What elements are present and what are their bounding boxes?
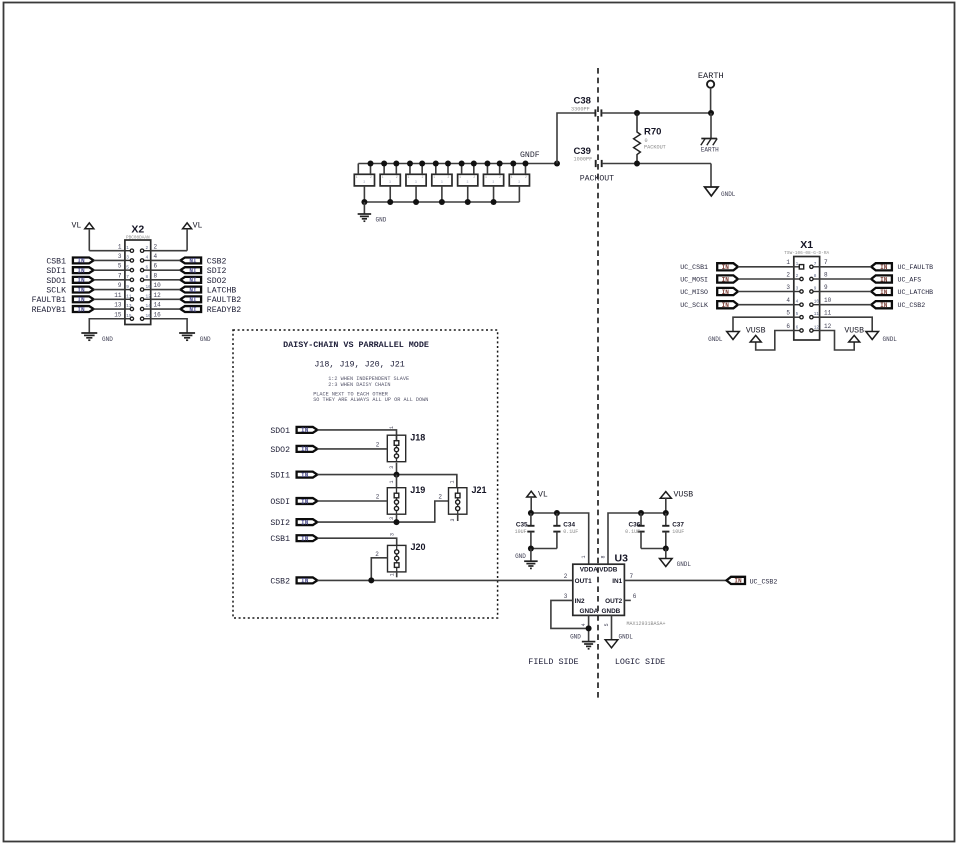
svg-text:6: 6 bbox=[786, 323, 790, 330]
wire - J18 pin 3 to SDI1 net bbox=[389, 463, 396, 475]
junction VL rail at C34 bbox=[554, 510, 560, 516]
svg-text:2: 2 bbox=[447, 175, 449, 179]
svg-text:3300PF: 3300PF bbox=[571, 107, 590, 113]
svg-text:2: 2 bbox=[370, 175, 372, 179]
svg-text:3: 3 bbox=[467, 180, 469, 184]
svg-text:SO THEY ARE ALWAYS ALL UP OR A: SO THEY ARE ALWAYS ALL UP OR ALL DOWN bbox=[313, 397, 428, 403]
port UC_CSB1 (X1 pin 1) bbox=[680, 263, 738, 271]
svg-text:IN: IN bbox=[301, 519, 309, 526]
port UC_AFS (X1 pin 8) bbox=[871, 275, 921, 283]
svg-text:GNDA: GNDA bbox=[579, 608, 598, 615]
ground GNDL (X1 left) bbox=[708, 332, 739, 343]
wire - X1 pin 7 to UC_FAULTB bbox=[820, 259, 872, 267]
capacitor C34 bbox=[531, 513, 578, 549]
svg-text:SDO1: SDO1 bbox=[270, 427, 290, 436]
terminal EARTH bbox=[698, 71, 724, 113]
svg-text:10UF: 10UF bbox=[515, 529, 527, 535]
ground GNDL (X1 right) bbox=[866, 332, 897, 343]
ground GND (U3 GNDA) bbox=[570, 634, 595, 649]
svg-text:SDI1: SDI1 bbox=[46, 267, 66, 276]
wire - cap bank bottom bus bbox=[364, 201, 519, 203]
net label PACKOUT bbox=[580, 175, 614, 184]
wire - X2 pin 14 to READYB2 bbox=[151, 302, 181, 309]
junction C36/C37 ground node bbox=[663, 546, 669, 552]
wire - SDI1 bus bbox=[317, 475, 457, 488]
svg-text:1: 1 bbox=[786, 259, 790, 266]
svg-text:7: 7 bbox=[118, 272, 122, 279]
svg-text:0.1UF: 0.1UF bbox=[563, 529, 578, 535]
svg-text:GNDL: GNDL bbox=[677, 561, 692, 568]
svg-text:IN: IN bbox=[77, 277, 85, 284]
svg-text:1: 1 bbox=[382, 175, 384, 179]
svg-text:GNDL: GNDL bbox=[708, 336, 723, 343]
svg-text:3: 3 bbox=[518, 180, 520, 184]
wire - J21 pin 3 stub (n.c.) bbox=[450, 513, 458, 521]
svg-text:4: 4 bbox=[146, 256, 149, 261]
svg-text:UC_MOSI: UC_MOSI bbox=[680, 276, 708, 283]
svg-text:15: 15 bbox=[114, 311, 122, 318]
junction CSB2/J20.2 bbox=[368, 577, 374, 583]
svg-text:FAULTB2: FAULTB2 bbox=[207, 296, 241, 305]
svg-text:7: 7 bbox=[126, 275, 129, 280]
svg-text:3: 3 bbox=[126, 256, 129, 261]
ground GND (cap bank) bbox=[358, 202, 387, 224]
svg-text:1: 1 bbox=[118, 243, 122, 250]
svg-text:SCLK: SCLK bbox=[46, 286, 66, 295]
svg-text:UC_CSB2: UC_CSB2 bbox=[750, 578, 778, 585]
svg-text:IN: IN bbox=[301, 472, 309, 479]
wire - X2 pin 4 to CSB2 bbox=[151, 253, 181, 260]
port SCLK (X2 pin 9) bbox=[46, 286, 93, 295]
port SDI2 (X2 pin 6) bbox=[180, 267, 226, 276]
wire - X2 pin 12 to FAULTB2 bbox=[151, 292, 181, 299]
wire - C39 to GNDL bbox=[602, 164, 711, 188]
note box - daisy-chain vs parallel mode (dashed) bbox=[233, 330, 498, 618]
svg-text:READYB2: READYB2 bbox=[207, 306, 241, 315]
port UC_CSB2 (X1 pin 10) bbox=[871, 301, 925, 309]
svg-text:IN1: IN1 bbox=[612, 578, 622, 585]
svg-text:MAX12931BASA+: MAX12931BASA+ bbox=[627, 621, 666, 627]
label LOGIC SIDE bbox=[615, 657, 665, 667]
wire - X1 pin 6 to VUSB bbox=[756, 323, 794, 350]
wire - X2 pin 15 to GND bbox=[89, 311, 125, 332]
wire - CSB1 to X2 pin 3 bbox=[94, 253, 125, 260]
wire - SDO1 to J18 pin 1 bbox=[317, 426, 396, 441]
svg-text:2: 2 bbox=[499, 175, 501, 179]
capacitor C38 bbox=[571, 96, 601, 117]
port OSDI bbox=[270, 498, 317, 507]
junction SDI1/J18.3/J19.1 bbox=[394, 472, 400, 478]
svg-text:10UF: 10UF bbox=[672, 529, 684, 535]
svg-text:3: 3 bbox=[441, 180, 443, 184]
svg-text:12: 12 bbox=[814, 326, 820, 331]
svg-text:2: 2 bbox=[564, 573, 568, 580]
port UC_MISO (X1 pin 3) bbox=[680, 288, 738, 296]
port CSB1 bbox=[270, 535, 317, 544]
svg-text:LATCHB: LATCHB bbox=[207, 286, 237, 295]
svg-text:IN: IN bbox=[77, 287, 85, 294]
svg-text:IN: IN bbox=[301, 578, 309, 585]
svg-text:10: 10 bbox=[146, 285, 152, 290]
svg-text:SDO2: SDO2 bbox=[270, 446, 290, 455]
wire - X1 pin 12 to VUSB bbox=[820, 323, 855, 350]
wire - VL to X2 pin 1 bbox=[89, 243, 125, 250]
port UC_SCLK (X1 pin 4) bbox=[680, 301, 738, 309]
svg-text:1: 1 bbox=[485, 175, 487, 179]
svg-text:4: 4 bbox=[796, 300, 799, 305]
svg-text:VUSB: VUSB bbox=[674, 490, 694, 499]
port FAULTB2 (X2 pin 12) bbox=[180, 296, 241, 305]
svg-text:CSB2: CSB2 bbox=[207, 257, 227, 266]
svg-text:READYB1: READYB1 bbox=[32, 306, 66, 315]
wire - SDO2 to J18 pin 2 bbox=[317, 442, 387, 449]
port CSB2 (X2 pin 4) bbox=[180, 257, 226, 266]
power VL (X2 left) bbox=[72, 222, 94, 251]
op-amp U3 (isolator MAX12931) bbox=[573, 553, 666, 627]
svg-text:5: 5 bbox=[604, 623, 610, 626]
wire - FAULTB1 to X2 pin 11 bbox=[94, 292, 125, 299]
ground GND (U3 caps) bbox=[515, 549, 538, 569]
wire - X1 pin 9 to UC_LATCHB bbox=[820, 284, 872, 292]
svg-text:VUSB: VUSB bbox=[844, 326, 864, 335]
wire - SDI2 bus to J21 pin 2 bbox=[317, 494, 448, 522]
junction VL rail at C35 bbox=[528, 510, 534, 516]
svg-text:IN: IN bbox=[880, 264, 888, 271]
svg-text:13: 13 bbox=[114, 302, 122, 309]
svg-text:LOGIC SIDE: LOGIC SIDE bbox=[615, 657, 665, 667]
svg-text:0.1UF: 0.1UF bbox=[625, 529, 640, 535]
svg-text:DAISY-CHAIN VS PARRALLEL MODE: DAISY-CHAIN VS PARRALLEL MODE bbox=[283, 340, 429, 350]
svg-text:NI: NI bbox=[189, 287, 197, 294]
svg-text:1: 1 bbox=[449, 480, 455, 483]
field/logic side separator (dashed) bbox=[597, 68, 599, 699]
svg-text:IN: IN bbox=[301, 427, 309, 434]
svg-text:11: 11 bbox=[126, 295, 132, 300]
wire - CSB2 net to U3 OUT1 bbox=[317, 579, 573, 581]
port LATCHB (X2 pin 10) bbox=[180, 286, 236, 295]
port UC_CSB2 (U3 IN1) bbox=[727, 577, 778, 586]
svg-text:UC_CSB1: UC_CSB1 bbox=[680, 264, 708, 271]
svg-text:NI: NI bbox=[189, 267, 197, 274]
svg-text:6: 6 bbox=[154, 263, 158, 270]
svg-text:GNDB: GNDB bbox=[601, 608, 620, 615]
wire - UC_MISO to X1 pin 3 bbox=[738, 284, 794, 292]
svg-text:3: 3 bbox=[786, 284, 790, 291]
port FAULTB1 (X2 pin 11) bbox=[32, 296, 94, 305]
svg-text:VUSB: VUSB bbox=[746, 326, 766, 335]
svg-text:1: 1 bbox=[389, 573, 395, 576]
svg-text:IN: IN bbox=[77, 297, 85, 304]
wire - UC_CSB1 to X1 pin 1 bbox=[738, 259, 794, 267]
svg-text:IN: IN bbox=[880, 276, 888, 283]
label FIELD SIDE bbox=[528, 657, 578, 667]
svg-text:FIELD SIDE: FIELD SIDE bbox=[528, 657, 578, 667]
resistor R70 bbox=[634, 113, 666, 164]
svg-text:UC_FAULTB: UC_FAULTB bbox=[898, 264, 934, 271]
svg-text:NI: NI bbox=[189, 306, 197, 313]
wire - SDI1 to X2 pin 5 bbox=[94, 263, 125, 270]
svg-text:1: 1 bbox=[459, 175, 461, 179]
capacitor array C45 bbox=[483, 164, 503, 203]
capacitor C35 bbox=[515, 513, 535, 549]
svg-text:3: 3 bbox=[389, 533, 395, 536]
junction SDI2/J19.3 bbox=[394, 519, 400, 525]
wire - X1 pin 8 to UC_AFS bbox=[820, 271, 872, 279]
port UC_MOSI (X1 pin 2) bbox=[680, 275, 738, 283]
wire - cap bank top bus GNDF bbox=[358, 163, 557, 165]
wire - UC_SCLK to X1 pin 4 bbox=[738, 297, 794, 305]
svg-text:1: 1 bbox=[407, 175, 409, 179]
wire - GNDB pin to GNDL bbox=[604, 615, 611, 639]
capacitor array C46 bbox=[509, 164, 529, 203]
capacitor array C42 bbox=[406, 164, 426, 203]
wire - OSDI to J19 pin 2 bbox=[317, 494, 387, 501]
svg-text:SDO2: SDO2 bbox=[207, 277, 227, 286]
svg-text:3: 3 bbox=[450, 518, 456, 521]
junction GNDA/IN2 bbox=[586, 625, 592, 631]
svg-text:EARTH: EARTH bbox=[701, 146, 719, 153]
svg-text:7: 7 bbox=[630, 573, 634, 580]
connector X1 bbox=[784, 239, 829, 340]
svg-text:5: 5 bbox=[118, 263, 122, 270]
svg-text:C36: C36 bbox=[628, 521, 640, 528]
svg-text:SDI2: SDI2 bbox=[207, 267, 227, 276]
svg-text:GNDL: GNDL bbox=[883, 336, 898, 343]
svg-text:VL: VL bbox=[538, 490, 548, 499]
svg-text:J20: J20 bbox=[411, 542, 426, 552]
svg-text:12: 12 bbox=[146, 295, 152, 300]
svg-text:CSB2: CSB2 bbox=[270, 577, 290, 586]
port SDI1 bbox=[270, 472, 317, 481]
svg-text:PACKOUT: PACKOUT bbox=[580, 175, 614, 184]
junctions - cap bank bottom bus bbox=[361, 199, 496, 205]
svg-text:OSDI: OSDI bbox=[270, 498, 290, 507]
svg-text:2: 2 bbox=[525, 175, 527, 179]
svg-text:8: 8 bbox=[146, 275, 149, 280]
wire - J21 pin 1 stub bbox=[449, 475, 456, 488]
svg-text:3: 3 bbox=[389, 180, 391, 184]
port READYB2 (X2 pin 14) bbox=[180, 306, 241, 315]
svg-text:C38: C38 bbox=[574, 96, 591, 107]
svg-text:UC_LATCHB: UC_LATCHB bbox=[898, 289, 934, 296]
svg-text:VDDA: VDDA bbox=[580, 566, 598, 573]
svg-text:IN: IN bbox=[77, 267, 85, 274]
svg-text:FAULTB1: FAULTB1 bbox=[32, 296, 66, 305]
svg-text:2: 2 bbox=[422, 175, 424, 179]
svg-text:IN: IN bbox=[77, 306, 85, 313]
svg-text:10: 10 bbox=[154, 282, 162, 289]
svg-text:12: 12 bbox=[154, 292, 162, 299]
svg-text:6: 6 bbox=[796, 326, 799, 331]
svg-text:NI: NI bbox=[189, 258, 197, 265]
wire - VUSB rail to VDDB bbox=[600, 513, 666, 564]
svg-text:9: 9 bbox=[824, 284, 828, 291]
svg-text:IN: IN bbox=[734, 578, 742, 585]
svg-text:5: 5 bbox=[796, 312, 799, 317]
svg-text:6: 6 bbox=[633, 593, 637, 600]
svg-text:2: 2 bbox=[154, 243, 158, 250]
svg-text:2: 2 bbox=[375, 551, 379, 558]
svg-text:8: 8 bbox=[824, 271, 828, 278]
svg-text:IN: IN bbox=[77, 258, 85, 265]
svg-text:8: 8 bbox=[814, 274, 817, 279]
port CSB1 (X2 pin 3) bbox=[46, 257, 93, 266]
svg-text:16: 16 bbox=[154, 311, 162, 318]
svg-text:12: 12 bbox=[824, 323, 832, 330]
svg-text:C37: C37 bbox=[672, 521, 684, 528]
svg-text:3: 3 bbox=[564, 593, 568, 600]
svg-text:1: 1 bbox=[796, 262, 799, 267]
note title bbox=[283, 340, 429, 350]
wire - OUT2 stub (n.c.) bbox=[624, 593, 636, 601]
wire - C38 to EARTH node bbox=[601, 112, 711, 114]
svg-text:3: 3 bbox=[415, 180, 417, 184]
ground GNDL (top right) bbox=[705, 187, 736, 198]
svg-text:9: 9 bbox=[814, 287, 817, 292]
power VL (X2 right) bbox=[183, 222, 203, 251]
svg-text:TSW-106-08-G-D-RA: TSW-106-08-G-D-RA bbox=[784, 251, 829, 256]
svg-text:SDI2: SDI2 bbox=[270, 519, 290, 528]
svg-text:UC_CSB2: UC_CSB2 bbox=[898, 302, 926, 309]
svg-text:UC_SCLK: UC_SCLK bbox=[680, 302, 708, 309]
svg-text:VL: VL bbox=[193, 222, 203, 231]
wire - SCLK to X2 pin 9 bbox=[94, 282, 125, 289]
port SDI1 (X2 pin 5) bbox=[46, 267, 93, 276]
svg-text:IN: IN bbox=[880, 302, 888, 309]
wire - X2 pin 8 to SDO2 bbox=[151, 272, 181, 279]
power VL (U3) bbox=[527, 490, 548, 513]
svg-text:6: 6 bbox=[146, 265, 149, 270]
svg-text:J19: J19 bbox=[410, 485, 425, 495]
port SDO2 bbox=[270, 446, 317, 455]
wire - X2 pin 16 to GND bbox=[151, 311, 187, 332]
svg-text:NI: NI bbox=[189, 297, 197, 304]
svg-text:X2: X2 bbox=[131, 224, 144, 236]
svg-text:9: 9 bbox=[118, 282, 122, 289]
svg-text:1000PF: 1000PF bbox=[574, 156, 593, 162]
wire - X1 pin 11 to GNDL bbox=[820, 310, 873, 332]
port SDI2 bbox=[270, 519, 317, 528]
power VUSB (X1 left) bbox=[746, 326, 766, 342]
svg-text:4: 4 bbox=[154, 253, 158, 260]
junction R70 top bbox=[634, 110, 640, 116]
junction R70 bottom bbox=[634, 161, 640, 167]
svg-text:9: 9 bbox=[126, 285, 129, 290]
svg-text:IN: IN bbox=[301, 536, 309, 543]
svg-text:7: 7 bbox=[814, 262, 817, 267]
wire - GNDF to C38 bbox=[557, 113, 595, 164]
wire - UC_MOSI to X1 pin 2 bbox=[738, 271, 794, 279]
wire - CSB1 to J20 pin 3 bbox=[317, 533, 396, 545]
svg-text:10: 10 bbox=[814, 300, 820, 305]
svg-text:8: 8 bbox=[154, 272, 158, 279]
svg-text:U3: U3 bbox=[615, 553, 629, 565]
capacitor C39 bbox=[574, 146, 602, 167]
power VUSB (X1 right) bbox=[844, 326, 864, 342]
jumper J20 bbox=[388, 542, 426, 572]
wire - SDO1 to X2 pin 7 bbox=[94, 272, 125, 279]
capacitor C36 bbox=[625, 513, 666, 549]
svg-text:3: 3 bbox=[492, 180, 494, 184]
svg-text:1: 1 bbox=[126, 246, 129, 251]
svg-text:2: 2 bbox=[438, 494, 442, 501]
note subtitle bbox=[314, 359, 404, 369]
svg-text:VDDB: VDDB bbox=[599, 566, 617, 573]
svg-text:2: 2 bbox=[786, 271, 790, 278]
svg-text:1: 1 bbox=[389, 426, 395, 429]
svg-text:CSB1: CSB1 bbox=[46, 257, 66, 266]
svg-text:2: 2 bbox=[376, 442, 380, 449]
node GNDF bbox=[520, 151, 560, 166]
svg-text:3: 3 bbox=[389, 466, 395, 469]
note text lines bbox=[313, 376, 428, 403]
junctions - cap bank top bus bbox=[368, 161, 529, 167]
svg-text:SDO1: SDO1 bbox=[46, 277, 66, 286]
svg-text:11: 11 bbox=[114, 292, 122, 299]
svg-text:IN: IN bbox=[722, 264, 730, 271]
svg-text:GND: GND bbox=[200, 336, 211, 343]
pin 2 label (OUT1) bbox=[564, 573, 568, 580]
wire - X2 pin 10 to LATCHB bbox=[151, 282, 181, 289]
junction EARTH node bbox=[708, 110, 714, 116]
svg-text:2: 2 bbox=[146, 246, 149, 251]
svg-text:1: 1 bbox=[581, 555, 587, 558]
port CSB2 bbox=[270, 577, 317, 586]
svg-text:2: 2 bbox=[796, 274, 799, 279]
svg-text:R70: R70 bbox=[644, 127, 661, 138]
connector X2 bbox=[125, 224, 151, 325]
svg-text:IN: IN bbox=[301, 498, 309, 505]
svg-text:IN: IN bbox=[880, 289, 888, 296]
ground GNDL (U3 GNDB) bbox=[605, 634, 633, 648]
svg-text:UC_MISO: UC_MISO bbox=[680, 289, 708, 296]
svg-text:GND: GND bbox=[376, 217, 387, 224]
ground GNDL (U3 caps) bbox=[660, 549, 692, 569]
svg-text:J21: J21 bbox=[472, 485, 487, 495]
svg-text:3: 3 bbox=[796, 287, 799, 292]
wire - J19 pin 1 stub bbox=[389, 475, 396, 488]
svg-text:15: 15 bbox=[126, 314, 132, 319]
svg-text:OUT1: OUT1 bbox=[575, 578, 592, 585]
svg-text:2: 2 bbox=[376, 494, 380, 501]
wire - VL rail to VDDA bbox=[531, 513, 589, 564]
ground GND (X2 left) bbox=[81, 333, 113, 343]
capacitor array C41 bbox=[380, 164, 400, 203]
svg-text:7: 7 bbox=[824, 259, 828, 266]
wire - J20 pin 2 to CSB2 net bbox=[371, 551, 387, 580]
wire - IN2 to GNDA node bbox=[551, 593, 589, 629]
svg-text:J18, J19, J20, J21: J18, J19, J20, J21 bbox=[314, 359, 404, 369]
svg-text:3: 3 bbox=[363, 180, 365, 184]
capacitor array C44 bbox=[458, 164, 478, 203]
svg-text:J18: J18 bbox=[410, 433, 425, 443]
port UC_FAULTB (X1 pin 7) bbox=[871, 263, 933, 271]
wire - IN1 to UC_CSB2 bbox=[624, 573, 726, 581]
wire - J19 pin 3 to SDI2 net bbox=[389, 513, 396, 522]
svg-text:X1: X1 bbox=[800, 239, 813, 251]
jumper J21 bbox=[449, 485, 487, 514]
svg-text:OUT2: OUT2 bbox=[605, 598, 622, 605]
svg-text:C39: C39 bbox=[574, 146, 591, 157]
svg-text:IN2: IN2 bbox=[575, 598, 585, 605]
svg-text:5: 5 bbox=[126, 265, 129, 270]
junction VUSB rail at C36 bbox=[638, 510, 644, 516]
svg-text:C35: C35 bbox=[516, 521, 528, 528]
svg-text:NI: NI bbox=[189, 277, 197, 284]
wire - READYB1 to X2 pin 13 bbox=[94, 302, 125, 309]
power VUSB (U3) bbox=[660, 490, 693, 513]
svg-text:IN: IN bbox=[722, 302, 730, 309]
